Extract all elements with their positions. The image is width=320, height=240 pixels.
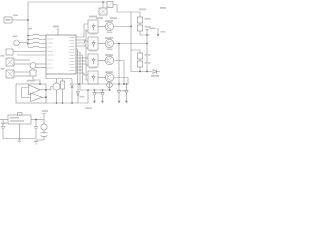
wire U1 pin [76, 55, 83, 84]
wire U3 to Q2 [98, 43, 105, 45]
diode D2 mark [107, 2, 113, 8]
node junction [27, 39, 29, 41]
resistor R1 inline [28, 34, 46, 35]
optocoupler U5 [88, 71, 98, 84]
op-amp U6B [31, 93, 43, 102]
wire U1 pin [76, 60, 86, 62]
crystal X1 [6, 58, 14, 66]
wire Y1 to U1 [36, 63, 46, 65]
zener D5 [101, 90, 105, 101]
regulator VR1 [8, 115, 31, 124]
node junction [27, 19, 29, 21]
wire Q4 out [114, 78, 128, 85]
label U3 [89, 33, 97, 35]
label text [85, 108, 92, 110]
resistor R4 inline [28, 46, 46, 47]
wire X1 pin a [14, 59, 30, 61]
label R8 [145, 62, 151, 64]
diode D3 [153, 69, 160, 73]
node junction [35, 119, 37, 121]
node junction [87, 89, 89, 91]
diode D2 [107, 2, 113, 8]
regulator tab [18, 113, 23, 115]
IC U1 [46, 35, 76, 74]
node junction [126, 83, 128, 85]
wire U1 pin to opto1 [76, 24, 88, 37]
wire P1 to bus [19, 42, 28, 44]
label D3 [151, 75, 159, 77]
node junction [56, 102, 58, 104]
wire U1 pin [76, 63, 86, 65]
wire U1 pin [76, 45, 86, 47]
wire stub [86, 30, 88, 32]
node junction [62, 102, 64, 104]
resistor R3 inline [28, 42, 46, 43]
ground arrow D4 [93, 101, 96, 104]
wire stub [86, 47, 88, 49]
node junction [139, 71, 141, 73]
optocoupler U4 [88, 54, 98, 67]
label text [96, 17, 103, 19]
wire R6 down [140, 23, 150, 35]
label text [160, 7, 166, 9]
LED in U3 [92, 41, 95, 48]
label U1 pins right [69, 38, 75, 71]
node junction [123, 83, 125, 85]
op-amp loop wire [16, 84, 46, 103]
transistor Q1 internals [108, 24, 112, 30]
ground arrow D6 [118, 101, 121, 104]
transistor Q5 [53, 83, 60, 90]
node junction [118, 43, 120, 45]
wire U1 pin [76, 69, 82, 71]
label U5 [89, 67, 97, 69]
wire to U1 pin [13, 51, 46, 53]
transistor Q3 internals [108, 58, 112, 64]
node junction [130, 26, 132, 28]
node junction [102, 89, 104, 91]
capacitor C1 [1, 120, 5, 139]
switch S1 [6, 49, 13, 55]
label VCC [42, 110, 48, 112]
resistor R5 [137, 17, 142, 23]
transistor Q2 internals [108, 41, 112, 47]
wire feedback inner [22, 88, 31, 98]
wire reg gnd [19, 124, 21, 139]
wire IC bottom rail [46, 74, 72, 79]
node junction [146, 43, 148, 45]
transistor Q3 [105, 56, 113, 64]
ground arrow D5 [101, 101, 104, 104]
transistor Q2 [105, 39, 113, 47]
node junction [45, 96, 47, 98]
wire branch to R5 [131, 12, 140, 17]
crystal X3 [99, 8, 107, 15]
LED D10 [41, 124, 47, 130]
wire U5 to Q4 [98, 77, 105, 79]
op-amp U6A [29, 85, 41, 95]
diode D8 [71, 79, 74, 104]
LED in U4 [92, 58, 95, 65]
label Q1 [105, 20, 113, 22]
wire gnd rail [3, 138, 36, 140]
label text [110, 17, 117, 19]
wire LED down [43, 130, 45, 132]
wire Q1 out [114, 26, 131, 28]
node junction [27, 43, 29, 45]
resistor R9 body [61, 81, 65, 89]
wire U1 pin [76, 39, 86, 41]
wire U1 pin down [76, 52, 80, 90]
LED in U2 [92, 24, 95, 31]
label net [28, 28, 33, 30]
label Q3 [105, 54, 113, 56]
label VR1 line2 [10, 120, 24, 122]
label Q4 [105, 71, 113, 73]
label below Q1 [107, 32, 113, 34]
node junction [109, 89, 111, 91]
label U2 [89, 16, 97, 18]
wire right bus 131 [130, 12, 132, 72]
label R5 [145, 18, 151, 20]
resistor R8 [137, 61, 142, 67]
label VR1 [10, 117, 19, 119]
connector P1 [14, 40, 20, 46]
wire stub [86, 79, 88, 81]
label Q2 [105, 37, 113, 39]
wire D2 out [113, 5, 131, 13]
wire C5 down [33, 76, 40, 84]
ground symbol [18, 139, 22, 143]
transistor Q4 [105, 73, 113, 81]
resistor R9 [62, 79, 64, 82]
wire tap down [118, 44, 120, 85]
LED in U5 [92, 75, 95, 82]
wire left vertical bus [27, 2, 29, 47]
wire X2 pin a [14, 71, 30, 73]
wire U1 pin to opto3 [76, 57, 88, 59]
label R7 [145, 54, 151, 56]
wire Q2 out [114, 43, 147, 45]
wire rail y103.5 [46, 102, 88, 104]
label text [1, 55, 5, 57]
crystal X2 [6, 70, 14, 78]
wire top rail [28, 1, 107, 3]
wire to U1 pin [17, 54, 46, 56]
power VCC tick U1 [57, 29, 60, 36]
label arrow [161, 31, 166, 33]
optocoupler U3 [88, 37, 98, 50]
label U1 pins left [48, 39, 55, 68]
wire reg out [31, 119, 44, 121]
wire U6B out [42, 96, 46, 98]
wire U1 pin to opto4 [76, 73, 88, 75]
wire X3 to rail [102, 2, 104, 8]
zener D4 [93, 90, 97, 101]
node junction [146, 71, 148, 73]
label text [1, 68, 5, 70]
wire Y1 to U1 [36, 67, 46, 69]
label J1 inner [6, 19, 11, 21]
wire base Q5 [46, 87, 53, 90]
wire U4 to Q3 [98, 60, 105, 62]
label D4 [97, 92, 102, 94]
wire bus 147 [146, 35, 148, 72]
wire R9 down [62, 89, 64, 103]
label D6 [122, 90, 127, 92]
label U1 [53, 26, 59, 28]
wire J1 to bus [12, 19, 28, 21]
node junction [39, 83, 41, 85]
crystal X3 cross [99, 8, 107, 15]
wire up to rail90 [87, 90, 89, 103]
diode D9 [77, 84, 80, 103]
label P1 [13, 36, 18, 38]
transistor Q4 internals [108, 75, 112, 81]
wire Q3 out [114, 61, 124, 85]
wire to gnd [36, 139, 44, 141]
wire U6A out [40, 89, 46, 91]
resistor R2 inline [28, 38, 46, 39]
node junction [78, 83, 80, 85]
wire U2 to Q1 [98, 26, 105, 28]
label cluster [80, 96, 85, 98]
label stack1 [139, 9, 146, 11]
wire X1 pin b [14, 63, 30, 65]
connector J1 [4, 17, 12, 23]
wire rail y90 [80, 89, 111, 91]
wire stub [86, 64, 88, 66]
node junction [118, 83, 120, 85]
wire U1 pin down [76, 49, 78, 84]
zener D7 [125, 84, 129, 101]
node junction [146, 34, 148, 36]
oscillator Y1 [30, 63, 36, 69]
wire opto common bus [85, 29, 87, 80]
power VCC arrow [42, 114, 45, 124]
ground symbol 2 [34, 140, 38, 144]
label VIN [1, 123, 7, 125]
wire rail y84 [75, 83, 129, 85]
transistor Q1 [105, 22, 113, 30]
crystal X1 cross [6, 58, 14, 66]
wire Q5 collector [56, 79, 58, 83]
node junction [27, 35, 29, 37]
label U4 [89, 50, 97, 52]
optocoupler U2 [88, 20, 98, 33]
node junction [94, 89, 96, 91]
wire R8 down [131, 59, 152, 72]
label R6 [145, 26, 151, 28]
wire U1 pin to opto2 [76, 41, 88, 43]
diode D11 [107, 82, 113, 88]
node junction [45, 89, 47, 91]
wire Q4 emitter [109, 82, 111, 90]
label J1 [13, 15, 18, 17]
label VCC2 [150, 28, 156, 30]
zener D6 [117, 84, 121, 101]
crystal X2 cross [6, 70, 14, 78]
power VCC tick [145, 30, 148, 35]
wire X2 pin b [14, 75, 30, 77]
wire branch to R7 [131, 50, 140, 53]
node junction [71, 102, 73, 104]
ground arrow D7 [125, 101, 128, 104]
capacitor C5 [30, 70, 36, 76]
power arrow head [157, 34, 159, 37]
power arrow down [157, 28, 159, 35]
label below Q2 [107, 49, 113, 51]
resistor R7 [137, 53, 142, 59]
capacitor C2 [34, 120, 38, 139]
wire U1 pin [76, 66, 82, 68]
resistor R6 [137, 25, 142, 31]
label U6 [27, 80, 35, 82]
wire Q5 emitter [56, 90, 58, 103]
node junction [102, 1, 104, 3]
wire reg input [0, 119, 8, 121]
capacitor C3 polarized [41, 133, 48, 140]
